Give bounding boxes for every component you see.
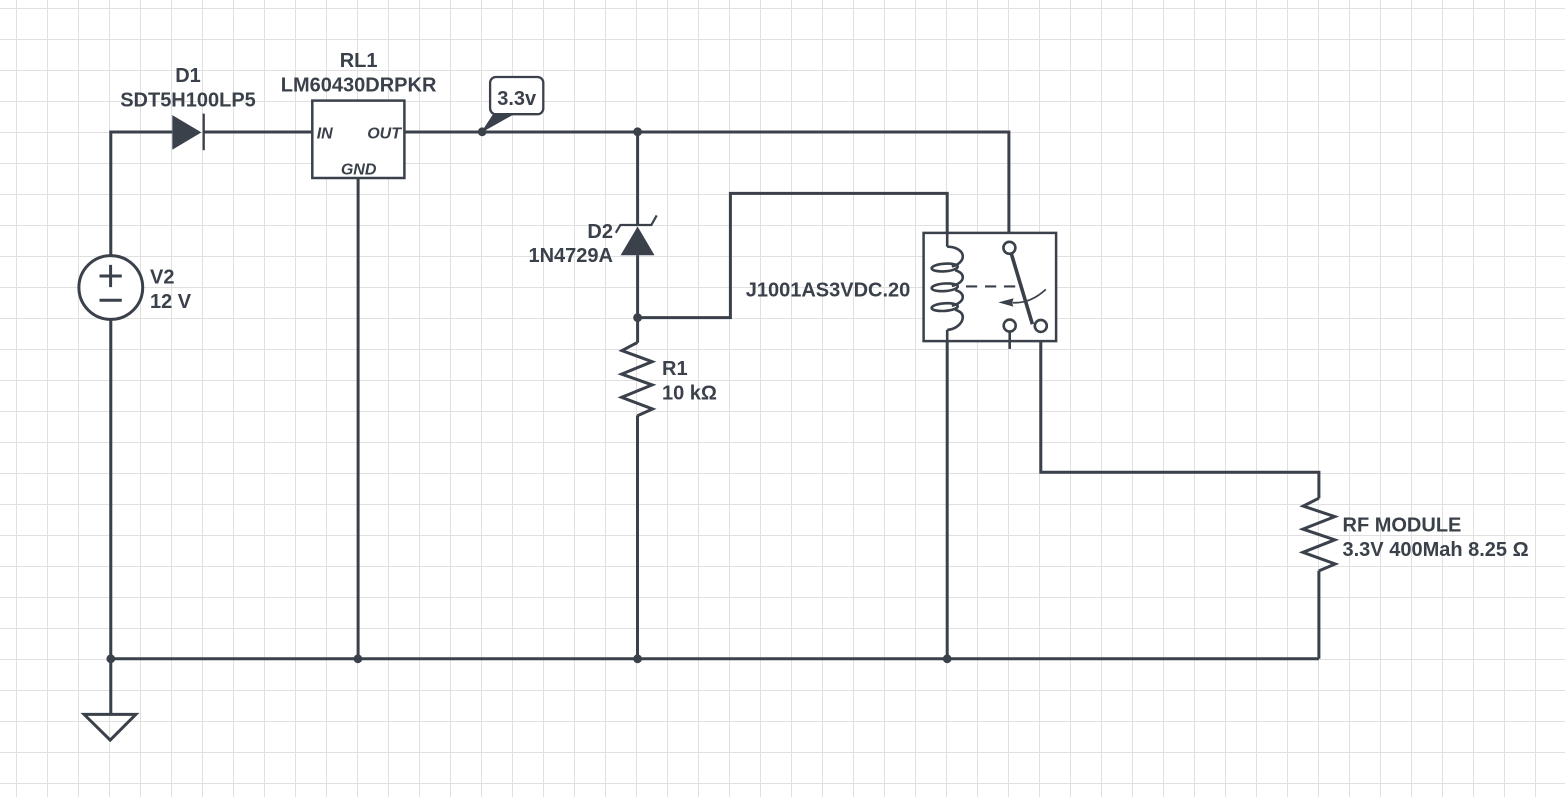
resistor RF MODULE bbox=[1303, 498, 1335, 571]
relay NO terminal bbox=[1035, 320, 1047, 332]
svg-text:RF MODULE: RF MODULE bbox=[1343, 515, 1462, 537]
svg-text:LM60430DRPKR: LM60430DRPKR bbox=[281, 75, 437, 97]
svg-text:R1: R1 bbox=[662, 358, 688, 380]
svg-text:D1: D1 bbox=[175, 65, 201, 87]
label D2 1N4729A bbox=[528, 221, 613, 267]
svg-text:OUT: OUT bbox=[367, 126, 402, 143]
junction node R1 at bus bbox=[633, 654, 642, 663]
relay armature dashed link bbox=[966, 285, 1016, 287]
svg-text:J1001AS3VDC.20: J1001AS3VDC.20 bbox=[746, 280, 911, 302]
label RL1 LM60430DRPKR bbox=[281, 50, 437, 97]
relay NC stub bbox=[1008, 332, 1011, 349]
junction node zener / R1 / relay coil bbox=[633, 313, 642, 322]
svg-text:12 V: 12 V bbox=[150, 291, 192, 313]
label D1 SDT5H100LP5 bbox=[120, 65, 256, 112]
relay coil bbox=[931, 233, 962, 341]
junction node top rail to zener branch bbox=[633, 127, 642, 136]
wire RF module bottom to bus bbox=[1317, 571, 1320, 659]
net label callout 3.3v bbox=[482, 77, 543, 132]
svg-text:D2: D2 bbox=[587, 221, 613, 243]
label R1 10 kOhm bbox=[662, 358, 717, 404]
ground bbox=[84, 659, 136, 740]
junction node 3.3v tap bbox=[478, 127, 487, 136]
wire regulator OUT to relay common, down into relay bbox=[404, 132, 1009, 242]
svg-text:RL1: RL1 bbox=[340, 50, 378, 72]
relay actuation arrow bbox=[998, 289, 1046, 306]
wire R1 bottom to bus bbox=[636, 416, 639, 659]
wire junction to relay coil bbox=[638, 193, 948, 317]
wire zener branch from top rail bbox=[636, 132, 639, 225]
relay switch blade bbox=[1011, 253, 1032, 324]
label V2 12 V bbox=[150, 267, 192, 313]
wire diode cathode to regulator IN bbox=[204, 131, 313, 134]
svg-text:1N4729A: 1N4729A bbox=[528, 245, 613, 267]
wire zener to junction node bbox=[636, 255, 639, 342]
svg-text:V2: V2 bbox=[150, 267, 174, 289]
wire relay NO pin to RF module bbox=[1041, 332, 1319, 499]
svg-text:3.3V 400Mah 8.25 Ω: 3.3V 400Mah 8.25 Ω bbox=[1343, 539, 1529, 561]
junction node relay coil at bus bbox=[943, 654, 952, 663]
diode D1 bbox=[172, 114, 203, 151]
voltage source V2 bbox=[79, 256, 143, 320]
wire V2 bottom to ground bus bbox=[109, 319, 112, 658]
wire regulator GND to bus bbox=[357, 178, 360, 659]
svg-text:IN: IN bbox=[317, 126, 333, 143]
relay J1001AS3VDC.20 box bbox=[924, 233, 1057, 341]
svg-text:GND: GND bbox=[341, 161, 377, 178]
svg-text:SDT5H100LP5: SDT5H100LP5 bbox=[120, 90, 256, 112]
resistor R1 bbox=[622, 343, 653, 416]
junction node regulator GND at bus bbox=[354, 654, 363, 663]
relay NC terminal bbox=[1004, 320, 1016, 332]
svg-text:3.3v: 3.3v bbox=[497, 88, 537, 110]
zener diode D2 bbox=[616, 215, 657, 255]
svg-text:10 kΩ: 10 kΩ bbox=[662, 382, 717, 404]
voltage regulator RL1 bbox=[312, 101, 404, 179]
wire relay coil bottom to bus bbox=[946, 330, 949, 659]
wire bottom bus bbox=[111, 657, 1319, 660]
relay switch common terminal bbox=[1003, 242, 1015, 254]
wire top rail from V2 to relay switch bbox=[111, 132, 173, 256]
junction node V2 to ground bus bbox=[106, 654, 115, 663]
label RF MODULE 3.3V 400Mah 8.25 Ohm bbox=[1343, 515, 1529, 562]
